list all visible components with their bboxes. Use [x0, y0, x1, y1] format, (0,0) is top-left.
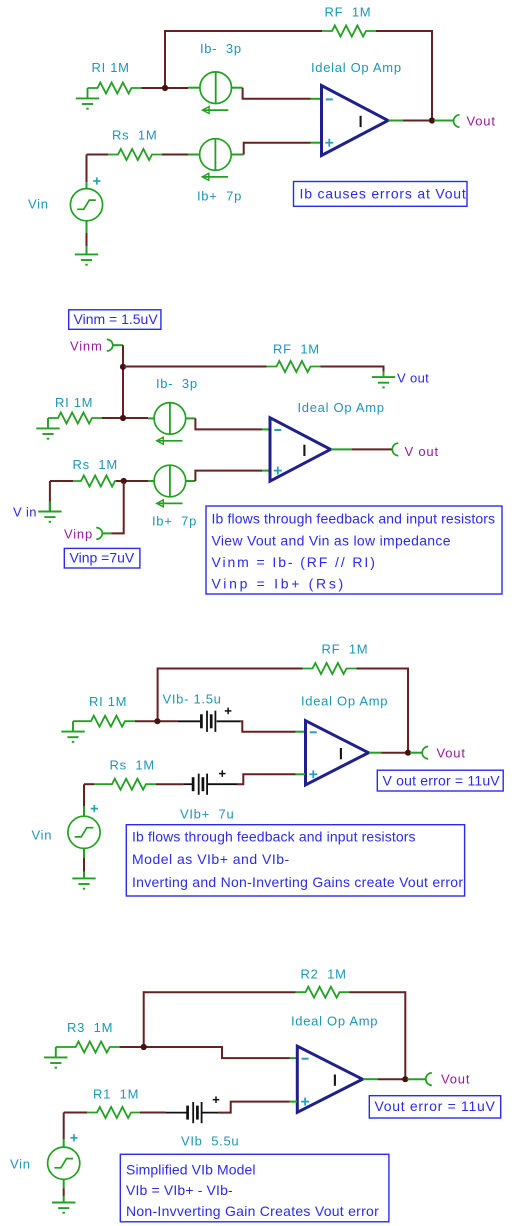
ground (Vin, circuit 2) — [38, 502, 61, 522]
wire RF to ground corner — [321, 367, 384, 372]
svg-text:Ib causes errors at Vout: Ib causes errors at Vout — [300, 186, 467, 202]
voltage source Vin — [70, 189, 102, 221]
svg-text:V in: V in — [13, 505, 37, 520]
wire Rs to VIb+ — [156, 783, 183, 785]
svg-text:VIb 5.5u: VIb 5.5u — [181, 1134, 239, 1149]
voltage source Vin top wire (circuit 3) — [83, 784, 85, 806]
svg-text:RI 1M: RI 1M — [92, 60, 130, 75]
battery VIb+ leads — [183, 783, 193, 785]
polarity + of VIb+ — [219, 770, 226, 777]
op-amp U1 (Idelal Op Amp) — [322, 86, 389, 156]
current source Ib- (circuit 2) — [154, 403, 186, 445]
current source Ib+ stubs (circuit 2) — [148, 480, 154, 482]
resistor Rs (circuit 3) — [94, 779, 156, 790]
wire right vertical RF to output node — [431, 30, 433, 121]
battery VIb — [188, 1102, 202, 1123]
junction node A (inverting net) — [162, 85, 168, 91]
voltage source Vin (circuit 3) — [68, 816, 100, 848]
wire Ib- to op-amp inverting (circuit 2) — [195, 418, 262, 429]
svg-text:Vin: Vin — [28, 197, 49, 212]
annotation box: Ib flows (circuit 3) — [126, 825, 464, 896]
wire R3 to op-amp inverting — [120, 1047, 290, 1058]
svg-text:V out: V out — [405, 444, 439, 459]
svg-text:Ib- 3p: Ib- 3p — [156, 376, 198, 391]
resistor RF — [322, 26, 376, 37]
annotation box: V out error = 11uV — [377, 770, 503, 791]
wire op-amp output to node Vout (circuit 3) — [369, 752, 382, 754]
terminal Vout — [454, 115, 460, 127]
terminal Vinp — [96, 528, 102, 540]
svg-text:Inverting and Non-Inverting Ga: Inverting and Non-Inverting Gains create… — [132, 874, 463, 890]
current source Ib- (stubs) — [188, 87, 200, 89]
svg-text:Ib flows through feedback and: Ib flows through feedback and input resi… — [132, 829, 416, 845]
svg-text:Idelal Op Amp: Idelal Op Amp — [311, 60, 402, 75]
svg-text:Model as VIb+ and VIb-: Model as VIb+ and VIb- — [132, 851, 290, 867]
wire right vertical R2 to output (circuit 4) — [404, 991, 406, 1079]
annotation box: Ib flows (circuit 2) — [206, 506, 502, 594]
wire R1 to VIb — [140, 1112, 166, 1114]
svg-text:Ideal Op Amp: Ideal Op Amp — [301, 694, 388, 709]
junction node Vout (circuit 3) — [405, 750, 411, 756]
current source Ib+ — [200, 139, 232, 181]
wire RI to node A — [142, 87, 189, 89]
svg-text:Vout: Vout — [437, 746, 466, 761]
op-amp U4 (Ideal Op Amp) — [297, 1046, 362, 1112]
battery VIb leads — [166, 1112, 188, 1114]
wire Vin corner to Rs (circuit 3) — [84, 783, 94, 785]
ground (RI left, circuit 2) — [36, 418, 59, 439]
resistor RF (circuit 3) — [303, 663, 357, 674]
wire node B to RF — [124, 366, 267, 368]
annotation box: Vout error = 11uV — [369, 1096, 500, 1118]
svg-text:V out: V out — [397, 371, 429, 386]
wire Rs to Ib+ (circuit 2) — [116, 480, 148, 482]
svg-text:Rs 1M: Rs 1M — [112, 128, 157, 143]
junction node Vout (circuit 4) — [402, 1076, 408, 1082]
polarity + of Vin (circuit 4) — [70, 1134, 77, 1141]
wire top feedback net (circuit 4) — [144, 991, 296, 993]
wire left vertical (circuit 4) — [143, 991, 145, 1047]
ground (below Vin, circuit 3) — [72, 878, 95, 889]
wire left vertical to RI node — [164, 30, 166, 88]
polarity + of Vin (circuit 3) — [91, 805, 98, 812]
svg-text:View Vout and Vin as low imped: View Vout and Vin as low impedance — [212, 532, 451, 548]
svg-text:V out error = 11uV: V out error = 11uV — [383, 772, 501, 788]
resistor Rs — [108, 149, 162, 160]
terminal Vinm — [107, 339, 113, 351]
resistor RF (circuit 2) — [267, 361, 321, 372]
svg-text:Ideal Op Amp: Ideal Op Amp — [291, 1014, 378, 1029]
svg-text:Vinm: Vinm — [70, 339, 103, 354]
svg-text:Vinm = Ib- (RF // RI): Vinm = Ib- (RF // RI) — [212, 554, 377, 570]
svg-text:Simplified VIb Model: Simplified VIb Model — [126, 1161, 256, 1177]
svg-text:Ib flows through feedback and: Ib flows through feedback and input resi… — [212, 511, 496, 527]
wire top feedback net (circuit 3) — [158, 668, 303, 670]
wire VIb- to op-amp inverting (circuit 3) — [241, 721, 296, 731]
wire Vin corner to R1 — [64, 1112, 88, 1114]
svg-text:Ib- 3p: Ib- 3p — [200, 41, 242, 56]
svg-text:Ib+ 7p: Ib+ 7p — [197, 189, 242, 204]
resistor R2 — [296, 987, 350, 998]
wire right vertical RF to output (circuit 3) — [407, 668, 409, 753]
svg-text:Vin: Vin — [10, 1157, 31, 1172]
resistor R3 — [56, 1042, 120, 1053]
svg-text:Vinp =7uV: Vinp =7uV — [70, 550, 135, 566]
resistor RI (circuit 2) — [48, 413, 102, 424]
wire op-amp output to node Vout — [389, 120, 404, 122]
svg-text:R3 1M: R3 1M — [67, 1020, 113, 1035]
wire Ib- to op-amp inverting input — [243, 88, 311, 99]
resistor RI (circuit 3) — [73, 716, 135, 727]
ground (RI left) — [76, 88, 99, 109]
polarity + of VIb- — [225, 708, 232, 715]
wire RI to node A3 — [135, 720, 177, 722]
wire node to terminal (circuit 3) — [410, 752, 422, 754]
annotation box: Simplified VIb Model — [120, 1154, 389, 1222]
svg-text:Vinp = Ib+ (Rs): Vinp = Ib+ (Rs) — [212, 576, 346, 592]
ground (RF right, Vout net) — [372, 372, 395, 388]
battery VIb- leads — [177, 720, 200, 722]
wire top feedback net (RF top) — [165, 30, 322, 32]
current source Ib+ (stubs) — [188, 154, 200, 156]
svg-text:VIb = VIb+ - VIb-: VIb = VIb+ - VIb- — [126, 1182, 233, 1198]
polarity + of VIb — [213, 1096, 220, 1103]
voltage source Vin (circuit 4) — [48, 1147, 80, 1179]
svg-text:Vin: Vin — [32, 828, 53, 843]
svg-text:Ideal Op Amp: Ideal Op Amp — [298, 400, 385, 415]
svg-text:Vinp: Vinp — [64, 527, 93, 542]
wire RI to Ib- (circuit 2) — [102, 417, 148, 419]
annotation box: Ib causes errors at Vout — [294, 182, 468, 207]
ground (below Vin, circuit 4) — [52, 1202, 75, 1213]
junction node A2 (inverting net) — [120, 415, 126, 421]
resistor RI — [88, 83, 142, 94]
wire Vin to Rs — [87, 154, 109, 156]
wire node Vout to terminal — [434, 120, 454, 122]
svg-text:Vinm = 1.5uV: Vinm = 1.5uV — [74, 311, 159, 327]
svg-text:VIb- 1.5u: VIb- 1.5u — [163, 692, 222, 707]
battery VIb- — [201, 711, 215, 732]
terminal Vout (circuit 3) — [422, 747, 428, 759]
wire Ib+ to op-amp non-inverting input — [244, 143, 311, 155]
svg-text:RF 1M: RF 1M — [322, 642, 369, 657]
wire Vin ground to Rs — [49, 481, 51, 512]
terminal Vout (circuit 4) — [426, 1073, 432, 1085]
svg-text:RF 1M: RF 1M — [325, 5, 372, 20]
wire Ib+ to op-amp non-inverting (circuit 2) — [195, 471, 262, 481]
ground (R3 left) — [44, 1047, 67, 1068]
resistor Rs (circuit 2) — [73, 476, 116, 487]
svg-text:R1 1M: R1 1M — [93, 1087, 139, 1102]
svg-text:Ib+ 7p: Ib+ 7p — [152, 514, 197, 529]
wire VIb+ to op-amp non-inverting (circuit 3) — [237, 774, 295, 784]
annotation box: Vinm = 1.5uV — [69, 310, 161, 330]
junction node B (RF branch) — [120, 364, 126, 370]
svg-text:Rs 1M: Rs 1M — [110, 758, 155, 773]
wire op-amp output to node Vout (circuit 4) — [363, 1078, 378, 1080]
current source Ib+ (circuit 2) — [154, 465, 186, 507]
svg-text:Vout error = 11uV: Vout error = 11uV — [375, 1098, 496, 1114]
wire Vin to ground (circuit 3) — [83, 848, 85, 858]
current source Ib- stubs (circuit 2) — [148, 417, 154, 419]
polarity + of Vin — [93, 177, 100, 184]
wire Vinm terminal to vertical net — [113, 344, 123, 346]
junction node A3 — [154, 718, 160, 724]
annotation box: Vinp =7uV — [64, 548, 140, 568]
svg-text:Rs 1M: Rs 1M — [73, 457, 118, 472]
wire Vin to ground — [86, 221, 88, 233]
svg-text:Vout: Vout — [467, 114, 496, 129]
ground (RI left, circuit 3) — [61, 721, 84, 742]
svg-text:RF 1M: RF 1M — [273, 342, 320, 357]
junction node A4 — [141, 1044, 147, 1050]
op-amp U3 (Ideal Op Amp) — [306, 721, 369, 785]
op-amp U2 (Ideal Op Amp) — [270, 418, 331, 482]
voltage source Vin (top wire) — [86, 155, 88, 183]
svg-text:VIb+ 7u: VIb+ 7u — [180, 807, 234, 822]
svg-text:RI 1M: RI 1M — [89, 694, 127, 709]
svg-text:Vout: Vout — [441, 1072, 470, 1087]
junction node C (Vinp net) — [121, 478, 127, 484]
wire op-amp output (circuit 2) — [331, 448, 352, 450]
current source Ib- — [200, 72, 232, 114]
ground (below Vin) — [75, 254, 98, 265]
svg-text:R2 1M: R2 1M — [301, 967, 347, 982]
resistor R1 — [87, 1107, 140, 1118]
wire Rs to Ib+ — [162, 154, 188, 156]
battery VIb+ — [193, 774, 207, 795]
voltage source Vin top wire (circuit 4) — [63, 1113, 65, 1140]
wire left vertical (circuit 3) — [157, 668, 159, 722]
terminal V out (circuit 2) — [392, 443, 398, 455]
wire node C to Vinp terminal — [111, 482, 123, 533]
wire node to terminal (circuit 4) — [407, 1078, 426, 1080]
junction node Vout — [429, 117, 435, 123]
wire Vin to ground (circuit 4) — [63, 1179, 65, 1188]
svg-text:Non-Invverting Gain Creates Vo: Non-Invverting Gain Creates Vout error — [126, 1203, 379, 1219]
wire VIb to op-amp non-inverting (circuit 4) — [218, 1102, 290, 1113]
svg-text:RI 1M: RI 1M — [55, 395, 93, 410]
